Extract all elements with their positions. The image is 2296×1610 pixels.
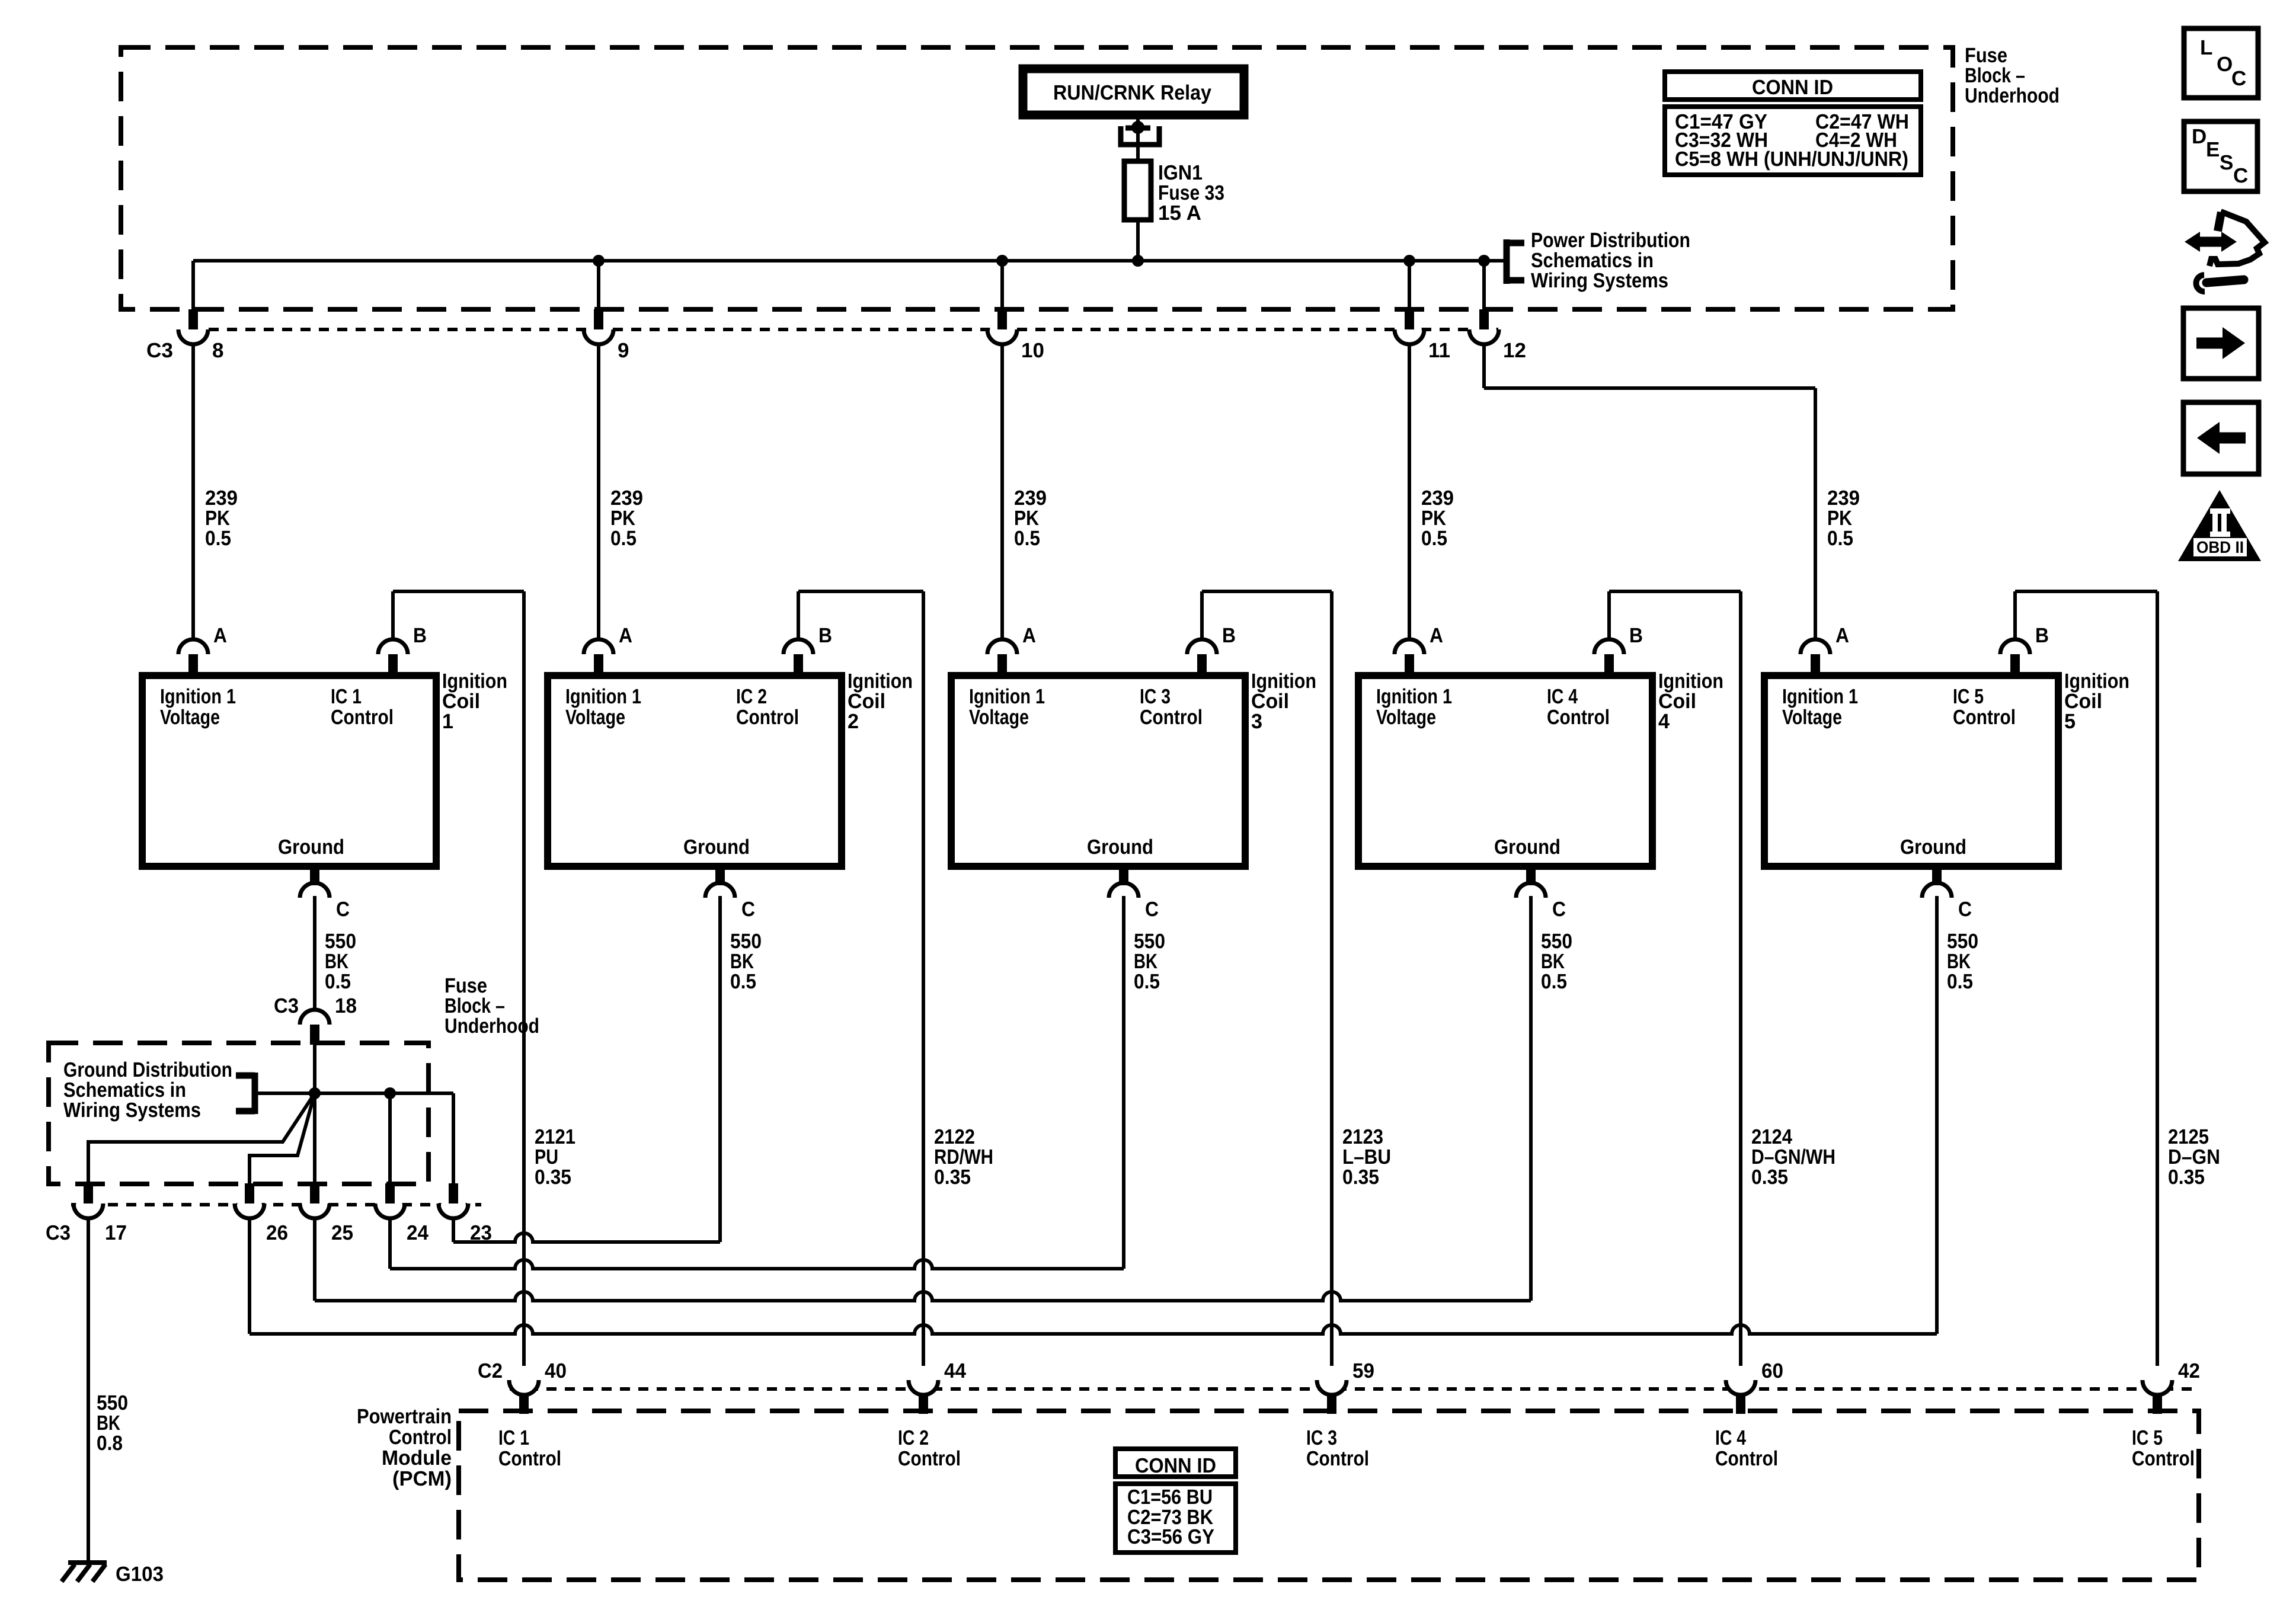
table: PCM CONN ID [1115, 1449, 1236, 1553]
label: wire 2125 D–GN 0.35 [2168, 1125, 2220, 1189]
svg-text:25: 25 [331, 1221, 353, 1244]
wire 550 BK coil 4 ground drop [1529, 896, 1533, 1301]
coil 3 pin B connector [1187, 639, 1217, 679]
svg-text:Control: Control [898, 1447, 961, 1470]
label: Ground (coil 5) [1900, 836, 1966, 859]
svg-text:Ignition 1: Ignition 1 [969, 685, 1045, 708]
fuse block underhood lower (dashed enclosure) [49, 1043, 428, 1184]
svg-text:B: B [1222, 624, 1236, 647]
label: IGN1 Fuse 33 15 A [1158, 161, 1224, 225]
bracket: ground distribution reference [236, 1073, 315, 1114]
svg-text:Underhood: Underhood [1965, 84, 2060, 107]
svg-text:Control: Control [1140, 706, 1203, 729]
coil 5 pin A connector [1801, 639, 1830, 679]
svg-text:4: 4 [1658, 710, 1670, 733]
icon: DESC box [2184, 121, 2257, 191]
connector pin 23 (C3) [439, 1183, 468, 1222]
svg-text:C: C [1958, 898, 1972, 921]
label: pin A coil 1 [213, 624, 227, 647]
label: Ignition Coil 3 [1251, 670, 1316, 733]
label: Ground (coil 2) [683, 836, 750, 859]
connector masks PCM [511, 1369, 2170, 1394]
svg-text:D: D [2192, 125, 2207, 148]
label: C3 at pin 8 [146, 339, 173, 362]
ignition coil 4 box [1358, 676, 1652, 866]
coil 4 pin B connector [1594, 639, 1624, 679]
connector row dotted line (C3 bottom) [71, 1203, 481, 1206]
label: G103 [116, 1563, 164, 1586]
svg-text:0.5: 0.5 [610, 527, 637, 550]
wire 239 PK pin 10 to coil 3 pin A [1000, 344, 1004, 639]
label: wire 239 PK 0.5 (coil 5) [1827, 486, 1860, 550]
svg-text:L: L [2200, 36, 2212, 59]
svg-text:0.5: 0.5 [1134, 970, 1160, 993]
label: C3 at pin 18 [274, 994, 299, 1017]
label: pin 59 [1352, 1359, 1374, 1382]
wire 550 BK coil 3 ground drop [1122, 896, 1125, 1269]
svg-text:IC 5: IC 5 [1953, 685, 1984, 708]
svg-text:Voltage: Voltage [969, 706, 1029, 729]
label: pin C coil 2 [741, 898, 755, 921]
label: pin B coil 2 [818, 624, 832, 647]
wire junction to pin 24 [388, 1093, 392, 1183]
wire 550 BK pin 17 to G103 [87, 1218, 90, 1563]
wire: ignition voltage bus [193, 259, 1504, 263]
coil 2 pin C connector [705, 863, 735, 898]
svg-text:Control: Control [389, 1426, 452, 1449]
ignition coil 5 box [1764, 676, 2058, 866]
label: Ground (coil 4) [1494, 836, 1560, 859]
svg-text:IC 4: IC 4 [1715, 1426, 1746, 1449]
label: Ground (coil 1) [278, 836, 344, 859]
svg-text:17: 17 [105, 1221, 127, 1244]
svg-text:9: 9 [618, 339, 629, 362]
svg-text:C3: C3 [274, 994, 299, 1017]
icon: LOC box [2184, 28, 2258, 98]
node: ground junction dot [309, 1087, 321, 1099]
label: Ignition 1 Voltage (coil 5) [1782, 685, 1858, 729]
svg-text:Control: Control [1715, 1447, 1778, 1470]
coil 5 pin B connector [2000, 639, 2030, 679]
svg-text:Voltage: Voltage [160, 706, 220, 729]
svg-text:42: 42 [2178, 1359, 2200, 1382]
svg-text:B: B [818, 624, 832, 647]
label: IC 4 Control (PCM) [1715, 1426, 1778, 1470]
coil 4 pin C connector [1516, 863, 1546, 898]
svg-text:C5=8 WH (UNH/UNJ/UNR): C5=8 WH (UNH/UNJ/UNR) [1675, 148, 1908, 171]
svg-text:40: 40 [545, 1359, 567, 1382]
svg-text:C3: C3 [146, 339, 173, 362]
node: relay output junction dot [1131, 121, 1144, 134]
svg-text:26: 26 [266, 1221, 288, 1244]
svg-text:0.8: 0.8 [97, 1432, 123, 1455]
svg-text:59: 59 [1352, 1359, 1374, 1382]
label: wire 2123 L–BU 0.35 [1342, 1125, 1391, 1189]
node dot pin11 feed [1403, 255, 1415, 267]
svg-text:15 A: 15 A [1158, 201, 1201, 225]
label: Ground (coil 3) [1087, 836, 1153, 859]
wire IC 5 control coil 5 B to PCM drop [2015, 591, 2157, 1366]
label: Ignition Coil 2 [848, 670, 913, 733]
svg-text:Ignition 1: Ignition 1 [565, 685, 641, 708]
label: wire 239 PK 0.5 (coil 1) [205, 486, 238, 550]
svg-text:Ignition 1: Ignition 1 [1376, 685, 1452, 708]
svg-text:CONN ID: CONN ID [1135, 1454, 1216, 1477]
label: Ignition 1 Voltage (coil 4) [1376, 685, 1452, 729]
label: Ignition 1 Voltage (coil 3) [969, 685, 1045, 729]
wire junction to pin 26 [250, 1093, 315, 1183]
label: Ignition 1 Voltage (coil 1) [160, 685, 236, 729]
svg-text:Control: Control [1953, 706, 2016, 729]
label: wire 550 BK 0.5 (coil 2) [730, 930, 762, 993]
node: pin 24 junction dot [384, 1087, 396, 1099]
svg-text:B: B [413, 624, 427, 647]
wire pin 23 to coil 2 ground [453, 1218, 720, 1242]
label: C3 at pin 17 [46, 1221, 71, 1244]
svg-text:10: 10 [1021, 339, 1044, 362]
svg-text:C: C [2233, 164, 2248, 187]
svg-text:0.35: 0.35 [2168, 1166, 2205, 1189]
wire 239 PK pin 8 to coil 1 pin A [191, 344, 195, 639]
svg-text:C3=56 GY: C3=56 GY [1127, 1525, 1214, 1548]
svg-text:A: A [1430, 624, 1443, 647]
label: pin B coil 5 [2035, 624, 2049, 647]
svg-text:Voltage: Voltage [1376, 706, 1436, 729]
svg-text:Ignition 1: Ignition 1 [1782, 685, 1858, 708]
wire bus drop to pin 8 [191, 261, 195, 311]
svg-text:E: E [2206, 138, 2220, 161]
svg-text:C: C [336, 898, 350, 921]
wire IC 1 control coil 1 B to PCM drop [393, 591, 524, 1366]
wire bus drop to pin 11 [1408, 261, 1411, 311]
svg-text:A: A [1835, 624, 1849, 647]
svg-text:OBD II: OBD II [2196, 538, 2244, 556]
svg-text:3: 3 [1251, 710, 1262, 733]
svg-text:Voltage: Voltage [565, 706, 625, 729]
label: Fuse Block - Underhood (lower) [445, 974, 539, 1038]
label: pin 23 [470, 1221, 492, 1244]
label: pin A coil 5 [1835, 624, 1849, 647]
connector pin 17 (C3) [73, 1183, 103, 1222]
label: pin 10 [1021, 339, 1044, 362]
connector pin 59 (C2 PCM) [1317, 1380, 1347, 1414]
connector pin 11 (C3) [1395, 309, 1424, 347]
wire pin 25 to coil 4 ground [315, 1218, 1531, 1301]
label: IC 3 Control (coil 3) [1140, 685, 1203, 729]
svg-text:C: C [1145, 898, 1159, 921]
svg-text:Ignition 1: Ignition 1 [160, 685, 236, 708]
svg-text:Voltage: Voltage [1782, 706, 1842, 729]
label: wire 550 BK 0.5 (coil 1) [325, 930, 356, 993]
svg-text:Underhood: Underhood [445, 1014, 539, 1038]
label: wire 2124 D–GN/WH 0.35 [1751, 1125, 1835, 1189]
label: pin 12 [1503, 339, 1526, 362]
svg-text:Control: Control [2132, 1447, 2195, 1470]
svg-text:0.5: 0.5 [1541, 970, 1567, 993]
coil 5 pin C connector [1922, 863, 1952, 898]
svg-text:S: S [2220, 151, 2233, 174]
svg-text:Control: Control [1306, 1447, 1369, 1470]
svg-text:Control: Control [736, 706, 799, 729]
svg-text:0.5: 0.5 [205, 527, 231, 550]
label: pin B coil 1 [413, 624, 427, 647]
node dot pin12 feed [1478, 255, 1490, 267]
svg-text:11: 11 [1428, 339, 1450, 362]
wire bus drop to pin 12 [1482, 261, 1486, 311]
connector pin 40 (C2 PCM) [509, 1380, 539, 1414]
label: wire 2121 PU 0.35 [535, 1125, 575, 1189]
label: Ignition Coil 4 [1658, 670, 1723, 733]
wire pin18 down to pin 25 [313, 1045, 316, 1183]
coil 1 pin C connector [300, 863, 330, 898]
svg-text:Ground: Ground [683, 836, 750, 859]
connector pin 8 (C3) [178, 309, 208, 347]
icon: forward arrow box [2183, 308, 2259, 379]
svg-text:IC 4: IC 4 [1547, 685, 1578, 708]
svg-text:IC 1: IC 1 [498, 1426, 529, 1449]
label: IC 2 Control (PCM) [898, 1426, 961, 1470]
label: IC 1 Control (coil 1) [331, 685, 394, 729]
coil 2 pin A connector [584, 639, 613, 679]
label: pin 24 [407, 1221, 429, 1244]
connector masks [181, 318, 1496, 343]
svg-text:B: B [2035, 624, 2049, 647]
label: pin 8 [212, 339, 223, 362]
svg-text:0.35: 0.35 [1342, 1166, 1379, 1189]
coil 1 pin A connector [178, 639, 208, 679]
svg-text:C: C [741, 898, 755, 921]
svg-text:Ground: Ground [1900, 836, 1966, 859]
svg-text:B: B [1629, 624, 1643, 647]
svg-text:C2: C2 [478, 1359, 503, 1382]
wire 550 BK coil 5 ground drop [1935, 896, 1939, 1334]
relay K: RUN/CRNK Relay box [1023, 69, 1244, 115]
label: pin 42 [2178, 1359, 2200, 1382]
wire IC 3 control coil 3 B to PCM drop [1202, 591, 1332, 1366]
svg-text:A: A [213, 624, 227, 647]
node dot pin9 feed [593, 255, 605, 267]
label: wire 550 BK 0.5 (coil 3) [1134, 930, 1165, 993]
svg-text:0.5: 0.5 [1827, 527, 1853, 550]
label: pin C coil 5 [1958, 898, 1972, 921]
label: pin C coil 1 [336, 898, 350, 921]
connector pin 60 (C2 PCM) [1726, 1380, 1755, 1414]
svg-text:44: 44 [944, 1359, 967, 1382]
svg-text:2: 2 [848, 710, 859, 733]
svg-text:60: 60 [1761, 1359, 1783, 1382]
label: pin A coil 4 [1430, 624, 1443, 647]
label: Powertrain Control Module (PCM) [357, 1405, 452, 1490]
ignition coil 2 box [548, 676, 842, 866]
label: pin 18 [335, 994, 357, 1017]
node dot fuse junction [1132, 255, 1144, 267]
label: pin B coil 4 [1629, 624, 1643, 647]
wire 550 BK coil 1 C to pin 18 [313, 896, 316, 1011]
label: Ground Distribution Schematics in Wiring Systems [63, 1058, 232, 1122]
label: pin C coil 4 [1552, 898, 1566, 921]
label: IC 5 Control (coil 5) [1953, 685, 2016, 729]
svg-text:8: 8 [212, 339, 223, 362]
wire junction to pin 17 [88, 1093, 315, 1183]
connector pin 25 (C3) [300, 1183, 330, 1222]
svg-text:Wiring Systems: Wiring Systems [63, 1099, 201, 1122]
coil 2 pin B connector [784, 639, 813, 679]
connector pin 44 (C2 PCM) [909, 1380, 938, 1414]
svg-text:12: 12 [1503, 339, 1526, 362]
svg-text:IC 2: IC 2 [898, 1426, 929, 1449]
label: IC 1 Control (PCM) [498, 1426, 561, 1470]
svg-text:A: A [1022, 624, 1036, 647]
connector pin 9 (C3) [584, 309, 613, 347]
connector pin 42 (C2 PCM) [2142, 1380, 2172, 1414]
svg-text:0.5: 0.5 [325, 970, 351, 993]
wire IC 2 control coil 2 B to PCM drop [798, 591, 923, 1366]
connector pin 18 (C3) [300, 1010, 330, 1045]
connector row dotted line (C3 top) [209, 328, 1498, 331]
svg-text:Module: Module [382, 1446, 452, 1470]
svg-text:Control: Control [331, 706, 394, 729]
label: C2 at pin 40 [478, 1359, 503, 1382]
fuse F33: IGN1 Fuse 33 15 A symbol [1124, 161, 1151, 220]
node dot pin10 feed [996, 255, 1008, 267]
svg-text:5: 5 [2064, 710, 2076, 733]
svg-text:IC 1: IC 1 [331, 685, 362, 708]
svg-text:0.5: 0.5 [1014, 527, 1040, 550]
svg-text:18: 18 [335, 994, 357, 1017]
label: Ignition Coil 1 [442, 670, 507, 733]
svg-text:A: A [619, 624, 632, 647]
wire 239 PK pin 12 to coil 5 pin A [1484, 344, 1815, 639]
wire junction right to pin 23 drop [315, 1093, 453, 1183]
svg-text:0.5: 0.5 [1421, 527, 1447, 550]
label: Ignition 1 Voltage (coil 2) [565, 685, 641, 729]
svg-text:Ground: Ground [1494, 836, 1560, 859]
label: pin A coil 3 [1022, 624, 1036, 647]
label: pin 17 [105, 1221, 127, 1244]
svg-text:Control: Control [1547, 706, 1610, 729]
svg-text:C: C [1552, 898, 1566, 921]
icon: back arrow box [2183, 402, 2259, 474]
label: wire 2122 RD/WH 0.35 [934, 1125, 993, 1189]
label: pin 25 [331, 1221, 353, 1244]
svg-text:0.35: 0.35 [1751, 1166, 1788, 1189]
label: Ignition Coil 5 [2064, 670, 2129, 733]
svg-text:24: 24 [407, 1221, 429, 1244]
label: RUN/CRNK Relay [1053, 81, 1211, 104]
svg-text:0.35: 0.35 [535, 1166, 571, 1189]
label: wire 239 PK 0.5 (coil 3) [1014, 486, 1047, 550]
label: pin 9 [618, 339, 629, 362]
label: IC 3 Control (PCM) [1306, 1426, 1369, 1470]
label: wire 550 BK 0.5 (coil 5) [1947, 930, 1978, 993]
wire bus drop to pin 9 [597, 261, 600, 311]
wire bus drop to pin 10 [1000, 261, 1004, 311]
svg-text:RUN/CRNK Relay: RUN/CRNK Relay [1053, 81, 1211, 104]
svg-text:C: C [2231, 67, 2246, 90]
label: pin 11 [1428, 339, 1450, 362]
svg-text:IC 5: IC 5 [2132, 1426, 2163, 1449]
wire IC 4 control coil 4 B to PCM drop [1609, 591, 1741, 1366]
wire fuse to bus [1136, 220, 1140, 261]
label: IC 4 Control (coil 4) [1547, 685, 1610, 729]
connector pin 12 (C3) [1469, 309, 1499, 347]
label: pin 26 [266, 1221, 288, 1244]
wire pin 24 to coil 3 ground [390, 1218, 1124, 1269]
label: Fuse Block - Underhood [1965, 44, 2060, 107]
connector pin 24 (C3) [375, 1183, 405, 1222]
svg-text:0.5: 0.5 [1947, 970, 1973, 993]
label: wire 239 PK 0.5 (coil 4) [1421, 486, 1454, 550]
svg-text:IC 3: IC 3 [1306, 1426, 1337, 1449]
label: wire 239 PK 0.5 (coil 2) [610, 486, 643, 550]
table: fuse block CONN ID [1665, 72, 1921, 175]
connector row dotted line (C2 PCM) [510, 1387, 2192, 1391]
coil 3 pin C connector [1109, 863, 1139, 898]
bracket: power distribution reference [1507, 239, 1524, 284]
svg-text:Ground: Ground [278, 836, 344, 859]
svg-text:IC 2: IC 2 [736, 685, 767, 708]
svg-text:1: 1 [442, 710, 453, 733]
label: pin 60 [1761, 1359, 1783, 1382]
wire pin 26 to coil 5 ground [250, 1218, 1937, 1334]
label: pin 40 [545, 1359, 567, 1382]
svg-text:Wiring Systems: Wiring Systems [1531, 269, 1668, 292]
ignition coil 1 box [142, 676, 436, 866]
wire 239 PK pin 9 to coil 2 pin A [597, 344, 600, 639]
svg-text:(PCM): (PCM) [392, 1467, 452, 1490]
coil 4 pin A connector [1395, 639, 1424, 679]
fuse holder receptacle symbol [1121, 126, 1159, 145]
ignition coil 3 box [951, 676, 1245, 866]
fuse block - underhood (dashed enclosure) [121, 47, 1953, 309]
wire 239 PK pin 11 to coil 4 pin A [1408, 344, 1411, 639]
label: pin A coil 2 [619, 624, 632, 647]
svg-text:0.35: 0.35 [934, 1166, 971, 1189]
svg-text:IC 3: IC 3 [1140, 685, 1171, 708]
svg-text:Ground: Ground [1087, 836, 1153, 859]
coil 1 pin B connector [378, 639, 408, 679]
connector masks bottom [76, 1193, 466, 1218]
icon: OBD II triangle [2178, 490, 2261, 561]
coil 3 pin A connector [987, 639, 1017, 679]
label: pin C coil 3 [1145, 898, 1159, 921]
svg-text:G103: G103 [116, 1563, 164, 1586]
wire 550 BK coil 2 ground drop [718, 896, 722, 1242]
powertrain control module (dashed enclosure) [459, 1411, 2199, 1580]
svg-text:Powertrain: Powertrain [357, 1405, 452, 1428]
svg-text:Control: Control [498, 1447, 561, 1470]
svg-text:C3: C3 [46, 1221, 71, 1244]
label: IC 2 Control (coil 2) [736, 685, 799, 729]
icon: repair info (arrow and wrench) [2185, 212, 2265, 292]
connector pin 10 (C3) [987, 309, 1017, 347]
ground G103 symbol [62, 1563, 107, 1582]
label: pin 44 [944, 1359, 967, 1382]
svg-text:O: O [2217, 53, 2233, 76]
wire relay to fuse [1136, 115, 1140, 164]
label: Power Distribution Schematics in Wiring Systems [1531, 229, 1690, 292]
label: pin B coil 3 [1222, 624, 1236, 647]
svg-text:CONN ID: CONN ID [1752, 76, 1833, 99]
label: wire 550 BK 0.5 (coil 4) [1541, 930, 1572, 993]
connector pin 26 (C3) [235, 1183, 264, 1222]
svg-text:0.5: 0.5 [730, 970, 756, 993]
label: wire 550 BK 0.8 [97, 1391, 128, 1455]
label: IC 5 Control (PCM) [2132, 1426, 2195, 1470]
